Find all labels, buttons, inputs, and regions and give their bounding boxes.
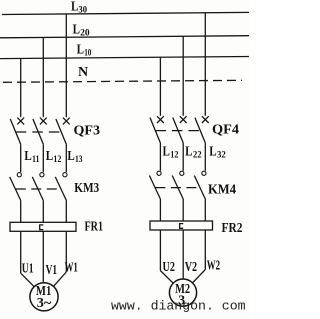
breaker QF3 pole3 contact cross (63, 118, 70, 125)
svg-text:13: 13 (75, 154, 83, 164)
label N (78, 65, 88, 80)
svg-text:L: L (24, 148, 31, 163)
svg-text:V1: V1 (46, 262, 58, 277)
svg-text:L: L (73, 22, 80, 37)
node label L13 (67, 148, 83, 164)
breaker QF3 pole2 contact cross (40, 118, 47, 125)
contactor KM4 pole3 contact circle (202, 171, 206, 175)
wire FR1 to motor M1 terminal U1 (21, 231, 34, 286)
breaker QF4 pole3 blade (195, 118, 205, 143)
node label L11 (24, 148, 40, 164)
contactor KM4 pole2 contact circle (180, 171, 184, 175)
svg-text:U2: U2 (163, 259, 176, 274)
neutral bus N (dashed) (3, 80, 242, 82)
svg-text:KM4: KM4 (208, 183, 236, 198)
label L30 (71, 0, 87, 15)
svg-text:10: 10 (84, 47, 92, 57)
contactor KM4 linkage bar (dashed) (155, 187, 201, 189)
svg-text:L: L (185, 144, 192, 159)
svg-text:L: L (71, 0, 78, 14)
svg-text:32: 32 (217, 150, 226, 160)
label FR1 (85, 219, 104, 234)
node label L12 (163, 144, 179, 160)
contactor KM4 pole2 blade (172, 176, 183, 200)
breaker QF4 pole1 contact cross (157, 116, 164, 123)
wire QF4 pole1 to KM4 (159, 143, 161, 171)
wire KM4 pole1 to FR2 (159, 199, 161, 221)
wire KM4 pole2 to FR2 (182, 199, 184, 221)
node label L32 (209, 144, 226, 160)
terminal label U1 (22, 261, 34, 276)
bus line L30 (2, 12, 249, 14)
svg-text:FR2: FR2 (222, 221, 243, 236)
label L20 (73, 22, 91, 38)
motor M1 circle (30, 283, 58, 311)
thermal relay FR2 body (150, 221, 213, 230)
motor M2 label (175, 282, 190, 297)
contactor KM4 pole1 blade (149, 176, 160, 200)
motor M1 phase mark 3~ (37, 295, 52, 310)
svg-text:N: N (78, 65, 88, 80)
terminal label U2 (163, 259, 176, 274)
svg-text:QF3: QF3 (74, 123, 101, 138)
svg-text:12: 12 (53, 154, 61, 164)
node label L22 (185, 144, 202, 160)
svg-text:L: L (209, 144, 216, 159)
svg-text:3~: 3~ (37, 295, 52, 310)
wire FR1 to motor M1 terminal W1 (54, 231, 66, 286)
breaker QF4 pole1 blade (150, 118, 160, 143)
wire QF4 pole3 to KM4 (204, 143, 206, 171)
wire QF3 pole2 to KM3 (42, 144, 44, 172)
breaker QF4 linkage bar (dashed) (155, 130, 201, 132)
terminal label W1 (65, 259, 78, 274)
node label L12 (46, 148, 62, 164)
svg-text:www. diangon. com: www. diangon. com (111, 298, 246, 313)
label QF4 (212, 122, 239, 137)
wire FR2 to motor M2 terminal V2 (182, 230, 184, 278)
contactor KM3 pole3 contact circle (63, 173, 67, 177)
contactor KM4 pole1 contact circle (157, 171, 161, 175)
contactor KM3 linkage bar (dashed) (16, 188, 62, 190)
label L10 (77, 41, 92, 57)
svg-text:FR1: FR1 (85, 219, 104, 234)
contactor KM3 pole2 contact circle (40, 173, 44, 177)
breaker QF3 pole3 blade (56, 119, 66, 144)
wire drop L10 to QF3 pole1 (20, 58, 22, 117)
wire drop L20 to QF3 pole2 (42, 38, 44, 118)
bus line L20 (0, 36, 249, 38)
wire KM3 pole2 to FR1 (42, 200, 44, 222)
terminal label W2 (207, 258, 220, 273)
wire FR2 to motor M2 terminal U2 (160, 230, 172, 283)
svg-text:22: 22 (193, 150, 202, 160)
wire QF4 pole2 to KM4 (182, 143, 184, 171)
contactor KM3 pole3 blade (55, 177, 66, 201)
wire KM4 pole3 to FR2 (204, 199, 206, 221)
bus line L10 (0, 57, 249, 59)
svg-text:L: L (67, 148, 74, 163)
wire FR2 to motor M2 terminal W2 (193, 230, 205, 283)
svg-text:QF4: QF4 (212, 122, 239, 137)
breaker QF4 pole3 contact cross (202, 116, 209, 123)
contactor KM3 pole2 blade (32, 177, 43, 201)
label QF3 (74, 123, 101, 138)
motor M2 circle (169, 279, 196, 306)
svg-text:L: L (77, 41, 84, 56)
wire drop L30 to QF4 pole3 (204, 13, 206, 116)
wire drop L30 to QF3 pole3 (65, 14, 67, 117)
svg-text:L: L (46, 148, 53, 163)
motor M1 label (36, 284, 51, 299)
svg-text:W2: W2 (207, 258, 220, 273)
svg-text:W1: W1 (65, 259, 78, 274)
svg-text:12: 12 (170, 150, 179, 160)
breaker QF4 pole2 contact cross (180, 116, 187, 123)
svg-text:L: L (163, 144, 170, 159)
terminal label V2 (185, 259, 198, 274)
thermal relay FR2 heater jog (180, 224, 184, 229)
wire drop L10 to QF4 pole1 (159, 57, 161, 116)
terminal label V1 (46, 262, 58, 277)
wire KM3 pole1 to FR1 (20, 200, 22, 222)
contactor KM3 pole1 blade (10, 177, 21, 201)
breaker QF4 pole2 blade (173, 118, 183, 143)
breaker QF3 linkage bar (dashed) (16, 131, 62, 133)
label KM4 (208, 183, 236, 198)
thermal relay FR1 heater jog (40, 225, 44, 230)
thermal relay FR1 body (10, 222, 76, 231)
svg-text:V2: V2 (185, 259, 198, 274)
svg-text:30: 30 (78, 5, 87, 15)
contactor KM4 pole3 blade (194, 176, 205, 200)
breaker QF3 pole2 blade (33, 119, 43, 144)
svg-text:20: 20 (80, 28, 90, 38)
breaker QF3 pole1 contact cross (17, 118, 24, 125)
motor M2 phase mark 3 (178, 292, 185, 307)
wire KM3 pole3 to FR1 (65, 200, 67, 222)
svg-text:U1: U1 (22, 261, 34, 276)
breaker QF3 pole1 blade (10, 119, 20, 144)
label KM3 (74, 181, 99, 196)
watermark www.diangon.com (111, 298, 246, 313)
contactor KM3 pole1 contact circle (17, 173, 21, 177)
svg-text:KM3: KM3 (74, 181, 99, 196)
wire QF3 pole1 to KM3 (20, 144, 22, 172)
wire QF3 pole3 to KM3 (65, 144, 67, 172)
wire FR1 to motor M1 terminal V1 (42, 231, 44, 282)
wire drop L20 to QF4 pole2 (182, 36, 184, 116)
label FR2 (222, 221, 243, 236)
svg-text:11: 11 (32, 154, 40, 164)
